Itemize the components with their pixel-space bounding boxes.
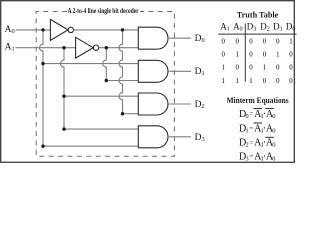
svg-text:=: = xyxy=(249,140,253,147)
inverter U2 (A1) xyxy=(76,37,99,58)
svg-text:0: 0 xyxy=(276,65,280,72)
wire: notA0 row to gate D2 bottom input xyxy=(123,113,139,115)
wire: A0 row to gate D1 top input xyxy=(43,63,138,65)
svg-text:0: 0 xyxy=(272,127,275,134)
junction: A0 branch to gate D1 xyxy=(41,62,44,65)
wire: D0 output xyxy=(168,37,191,39)
equation D1 xyxy=(239,123,276,134)
svg-text:0: 0 xyxy=(263,39,267,46)
svg-text:0: 0 xyxy=(249,39,253,46)
svg-text:1: 1 xyxy=(245,127,248,134)
junction: A1 branch to gate D2 xyxy=(62,95,65,98)
wire: A0 vertical drop, hops over A1 row xyxy=(40,30,44,146)
svg-text:1: 1 xyxy=(263,65,266,72)
svg-text:0: 0 xyxy=(289,52,293,59)
svg-text:0: 0 xyxy=(289,78,293,85)
svg-text:0: 0 xyxy=(272,142,275,149)
truth table vertical divider xyxy=(244,24,246,82)
svg-text:1: 1 xyxy=(289,39,292,46)
svg-text:0: 0 xyxy=(235,39,239,46)
junction: notA0 tap on inverter U1 output xyxy=(121,28,124,31)
svg-text:0: 0 xyxy=(276,39,280,46)
wire: notA1 vertical drop, hops over D1 top row xyxy=(103,48,107,81)
junction: A1 corner to gate D3 xyxy=(62,127,65,130)
wire: D3 output xyxy=(168,136,191,138)
truth table data rows xyxy=(221,39,293,85)
junction: notA0 corner to gate D2 xyxy=(121,112,124,115)
wire: A1 row to gate D3 top input xyxy=(64,128,138,130)
dashed box: decoder boundary xyxy=(36,12,174,157)
svg-text:=: = xyxy=(249,126,253,133)
equation D2 xyxy=(239,138,276,149)
equation D3 xyxy=(239,151,276,162)
svg-text:3: 3 xyxy=(245,155,248,162)
svg-text:2: 2 xyxy=(245,142,248,149)
wire: A0 row to gate D3 bottom input xyxy=(43,145,138,147)
wire: D2 output xyxy=(168,103,191,105)
AND gate D0 xyxy=(138,27,168,49)
svg-text:Minterm Equations: Minterm Equations xyxy=(227,96,289,105)
outer border frame xyxy=(1,1,295,163)
wire: notA1 from U2 to gate D0 bottom input xyxy=(99,47,139,49)
wire: D1 output xyxy=(168,70,191,72)
svg-text:=: = xyxy=(249,154,253,161)
svg-text:1: 1 xyxy=(235,78,238,85)
junction: notA1 corner to gate D1 xyxy=(105,79,108,82)
svg-text:0: 0 xyxy=(289,65,293,72)
svg-text:1: 1 xyxy=(249,78,252,85)
wire: notA0 from U1 to gate D0 top input xyxy=(74,29,139,31)
svg-text:=: = xyxy=(249,111,253,118)
AND gate D1 xyxy=(138,60,168,82)
svg-text:1: 1 xyxy=(221,65,224,72)
svg-text:0: 0 xyxy=(272,113,275,120)
svg-text:0: 0 xyxy=(272,155,275,162)
wire: notA1 row to gate D1 bottom input xyxy=(106,80,138,82)
junction: A1 tap on input line xyxy=(62,46,65,49)
svg-text:1: 1 xyxy=(235,52,238,59)
junction: A0 corner to gate D3 xyxy=(41,145,44,148)
svg-text:0: 0 xyxy=(249,65,253,72)
equation D0 xyxy=(239,109,276,120)
junction: A0 tap on input line xyxy=(41,28,44,31)
svg-text:0: 0 xyxy=(276,78,280,85)
svg-text:0: 0 xyxy=(221,39,225,46)
junction: notA1 tap on inverter U2 output xyxy=(105,46,108,49)
svg-text:Truth Table: Truth Table xyxy=(237,10,279,20)
svg-text:A 2-to-4 line single bit decod: A 2-to-4 line single bit decoder xyxy=(68,7,140,15)
truth table header rule xyxy=(218,33,296,35)
svg-text:0: 0 xyxy=(221,52,225,59)
svg-text:0: 0 xyxy=(245,113,248,120)
svg-text:0: 0 xyxy=(249,52,253,59)
AND gate D2 xyxy=(138,93,168,115)
svg-text:0: 0 xyxy=(235,65,239,72)
inverter U1 (A0) xyxy=(50,19,73,40)
wire: notA0 vertical drop, hops over four rows xyxy=(119,30,123,114)
svg-text:1: 1 xyxy=(221,78,224,85)
wire: A1 vertical drop, hops over D1 top row xyxy=(61,48,64,129)
svg-text:0: 0 xyxy=(263,52,267,59)
wire: A0 input line to inverter U1 xyxy=(16,29,51,31)
svg-text:0: 0 xyxy=(263,78,267,85)
AND gate D3 xyxy=(138,126,168,148)
wire: A1 input line to inverter U2 xyxy=(16,47,76,49)
wire: A1 row to gate D2 top input xyxy=(64,95,138,97)
svg-text:1: 1 xyxy=(276,52,279,59)
truth table column headers xyxy=(220,21,295,32)
